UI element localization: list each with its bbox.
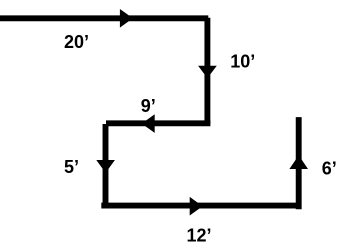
svg-text:12’: 12’ (187, 225, 212, 245)
svg-text:20’: 20’ (64, 32, 89, 52)
svg-text:5’: 5’ (64, 157, 79, 177)
svg-text:6’: 6’ (322, 158, 337, 178)
svg-text:9’: 9’ (141, 96, 156, 116)
svg-text:10’: 10’ (230, 52, 255, 72)
